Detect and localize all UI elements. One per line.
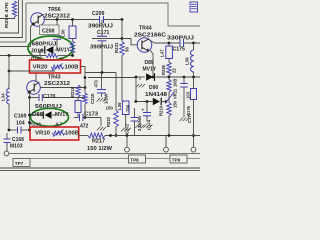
wire C208 to varicap D87 [56, 40, 58, 51]
svg-text:100B: 100B [65, 131, 79, 137]
node L39 top [192, 42, 195, 45]
ground stub on bus [139, 77, 141, 80]
svg-text:R222: R222 [106, 116, 111, 127]
chassis rail second [30, 158, 200, 160]
inductor L36 (box symbol) [122, 101, 129, 115]
node bus x169 [168, 76, 171, 79]
node R216 [28, 121, 31, 124]
test point TP8 [126, 136, 128, 148]
wire TR43 base row [40, 87, 85, 89]
node bus VR11 [168, 134, 171, 137]
wire D90 row [135, 77, 137, 102]
svg-text:TP9: TP9 [172, 158, 181, 163]
node emitter join [152, 76, 155, 79]
svg-text:104: 104 [16, 121, 25, 127]
node C171 bottom on rail [101, 71, 104, 74]
svg-text:C177: C177 [187, 112, 192, 123]
resistor R220 47 [46, 54, 58, 58]
wire top right row [155, 42, 180, 44]
green ellipse highlight around varicap D87 [28, 36, 73, 60]
capacitor C208 label box [40, 25, 60, 35]
resistor R217 150 1/2W in bus [88, 133, 105, 138]
green ellipse highlight around varicap D88 [31, 108, 69, 126]
node D90 left [134, 100, 137, 103]
capacitor C174 2.2u50V with grounds [146, 102, 148, 113]
node R222 bus [115, 134, 118, 137]
wire bus B top-left [0, 0, 22, 38]
capacitor C177 (box symbol) [193, 77, 195, 89]
svg-text:C175: C175 [173, 47, 186, 53]
test point circle right [191, 147, 196, 152]
capacitor C171 plates [98, 35, 107, 37]
svg-text:C172: C172 [125, 123, 130, 134]
capacitor C208 plates [53, 35, 61, 37]
capacitor C210 473 with ground [101, 73, 103, 90]
inductor L47 (box symbol) [168, 43, 170, 46]
node varicap anode [28, 114, 31, 117]
svg-text:MV1Y: MV1Y [57, 48, 71, 54]
wire R231 down to L36 [121, 56, 123, 102]
node D90 C174 [146, 100, 149, 103]
transistor TR56 2SC2312 [31, 13, 45, 27]
resistor R259 below L50 [70, 41, 74, 54]
test point TP7 label box [13, 159, 30, 167]
svg-text:L34: L34 [1, 93, 6, 101]
node on collector row at L50 column [71, 18, 74, 21]
svg-text:150: 150 [173, 100, 178, 108]
wire emitter column down to C169 row [29, 98, 31, 116]
svg-text:R226: R226 [161, 64, 166, 75]
test point TP9 [165, 136, 167, 148]
svg-text:VR10: VR10 [35, 131, 50, 137]
diode D90 1N4148 [153, 98, 160, 106]
wire ground bus [79, 135, 88, 137]
svg-text:100B: 100B [65, 65, 79, 71]
svg-text:TP8: TP8 [130, 158, 139, 163]
svg-text:330P/UJ: 330P/UJ [167, 36, 194, 42]
svg-text:C210: C210 [90, 93, 95, 104]
svg-text:56: 56 [125, 47, 130, 52]
resistor R231 56 [121, 20, 123, 42]
capacitor C175 330P/UJ [179, 39, 181, 47]
node bus TP8 [126, 134, 129, 137]
capacitor C172 104 [134, 108, 136, 117]
transistor TR44 2SC2166C [137, 38, 152, 53]
wire mid rail y72.5 [85, 72, 116, 74]
node C169 left [8, 129, 11, 132]
test point TP7 circle [4, 151, 9, 156]
svg-text:L39: L39 [185, 57, 190, 65]
capacitor C173 472 [74, 117, 80, 119]
wire vertical bus x85 [84, 73, 86, 94]
trimmer VR20 100B (red boxed) [30, 60, 81, 73]
svg-text:L47: L47 [160, 49, 165, 57]
node L47 top [168, 42, 171, 45]
svg-text:390P/UJ: 390P/UJ [88, 24, 113, 30]
svg-text:MV1Y: MV1Y [143, 67, 157, 73]
wire TR43 emitter [29, 93, 32, 98]
svg-text:+: + [142, 108, 145, 113]
svg-text:VR20: VR20 [33, 65, 48, 71]
node at C209 right [121, 18, 124, 21]
node at R-column bottom [71, 54, 74, 57]
wire TR43 collector to VR20 [35, 73, 37, 82]
wire node row y55 from left edge [0, 55, 46, 57]
wire TR44 collector to top row [150, 40, 155, 43]
svg-text:R258 47K: R258 47K [4, 1, 10, 28]
resistor R218 column [76, 85, 80, 97]
inductor L50 (box symbol) [69, 26, 76, 39]
wire C208 upper lead [56, 20, 58, 26]
inductor coil left column L34 [6, 89, 9, 105]
resistor VR11 1KB 150 [168, 77, 170, 80]
shield boundary top edge [26, 3, 200, 26]
node bus x110.5 [109, 134, 112, 137]
svg-text:R231: R231 [114, 42, 119, 53]
svg-text:150: 150 [106, 106, 114, 111]
node bus x184 [183, 76, 186, 79]
svg-text:J018: J018 [31, 49, 44, 55]
svg-text:VR11: VR11 [173, 88, 178, 99]
svg-text:390P/UJ: 390P/UJ [90, 45, 113, 51]
svg-text:TR44: TR44 [139, 26, 152, 32]
trimmer VR10 100B (red boxed) [30, 127, 79, 140]
wire varicap to C169 node [29, 115, 31, 130]
connector top right corner [190, 2, 198, 12]
node on collector row at C208 [56, 18, 59, 21]
node C169 right [28, 129, 31, 132]
frame bottom double line [0, 167, 200, 169]
node D90 right at VR11 wiper [165, 100, 168, 103]
capacitor C170 [30, 97, 39, 99]
svg-text:R218: R218 [70, 86, 75, 97]
svg-text:D89: D89 [145, 60, 154, 66]
svg-text:1KB: 1KB [173, 79, 178, 87]
svg-text:C168: C168 [12, 137, 24, 143]
node TR43 emitter [28, 96, 31, 99]
wire bus row y77 [88, 77, 136, 79]
wire bus A top-left [0, 0, 19, 33]
wire TR56 collector row [44, 19, 100, 21]
chassis rail upper [9, 153, 200, 155]
wire coil to C169 row [8, 104, 10, 130]
svg-text:C171: C171 [97, 30, 110, 36]
svg-text:R217: R217 [92, 139, 105, 145]
inductor L39 [193, 43, 195, 50]
node junction left [8, 54, 11, 57]
capacitor C176 103 with ground [183, 77, 185, 83]
svg-text:22: 22 [172, 68, 177, 73]
resistor R258 47K [12, 1, 16, 17]
resistor R222 150 [115, 73, 117, 111]
node C177 bus [192, 134, 195, 137]
svg-text:TR43: TR43 [48, 75, 61, 81]
svg-text:TP7: TP7 [15, 161, 24, 166]
wire VR20 right terminal to rail [81, 67, 86, 73]
wire C171 row [92, 38, 122, 40]
svg-text:473: 473 [94, 80, 99, 88]
svg-text:TR56: TR56 [48, 7, 61, 13]
svg-text:C173: C173 [84, 112, 98, 118]
wire R258 lead to left edge [0, 17, 15, 19]
diode D89 series [146, 73, 153, 81]
varicap diode D87 MV1Y [55, 49, 57, 51]
wire TR44 base [122, 39, 138, 45]
wire TR56 emitter down-left to left edge [0, 25, 32, 47]
shield boundary left vertical with corner exiting left [0, 3, 26, 42]
svg-text:2SC2166C: 2SC2166C [134, 33, 166, 39]
resistor R226 22 [168, 59, 170, 63]
svg-text:2SC2312: 2SC2312 [44, 81, 70, 87]
svg-text:C170: C170 [43, 94, 56, 100]
capacitor C209 390P [99, 16, 101, 23]
svg-text:C209: C209 [92, 11, 105, 17]
svg-text:1/2W: 1/2W [104, 93, 109, 104]
svg-text:1N4148: 1N4148 [145, 92, 167, 98]
svg-text:472: 472 [80, 124, 89, 130]
transistor TR43 2SC2312 [27, 81, 41, 95]
node x85 y77.5 [84, 76, 87, 79]
node bus x136 [135, 76, 138, 79]
node base branch [121, 37, 124, 40]
svg-text:C208: C208 [42, 29, 55, 35]
svg-text:R219: R219 [159, 105, 164, 116]
svg-text:L50: L50 [61, 29, 66, 37]
svg-text:104: 104 [125, 104, 130, 112]
svg-text:103: 103 [186, 91, 191, 99]
node bus x193.5 [192, 76, 195, 79]
wire TR44 emitter down [151, 51, 154, 78]
capacitor C168 M103 [6, 133, 8, 139]
svg-text:L36: L36 [117, 102, 122, 110]
svg-text:M103: M103 [10, 144, 23, 150]
resistor R262 on vertical bus [83, 93, 87, 104]
node TR43 base at vertical bus [84, 86, 87, 89]
wire left vertical to coil [8, 56, 10, 72]
wire C171 down [101, 41, 103, 73]
ground at C173 right end [100, 118, 102, 127]
node on left vertical [8, 70, 11, 73]
svg-text:150 1/2W: 150 1/2W [87, 146, 112, 152]
svg-text:D90: D90 [149, 85, 158, 91]
capacitor C169 104 [9, 129, 17, 131]
node x85 y117.5 [84, 116, 87, 119]
svg-text:MV1Y: MV1Y [55, 112, 69, 118]
svg-text:680P/UJ: 680P/UJ [32, 42, 57, 48]
svg-text:C169: C169 [14, 114, 27, 120]
wire VR20 wiper row [9, 70, 55, 72]
